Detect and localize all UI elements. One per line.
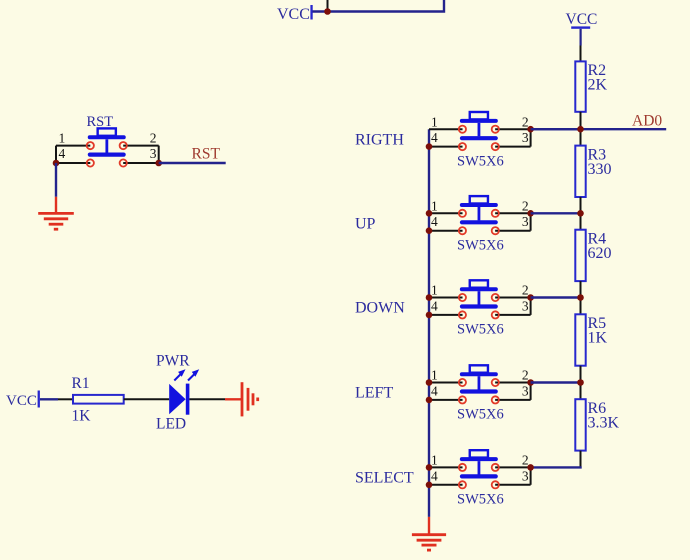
wire rail to pin 4 (DOWN) (429, 314, 463, 316)
wire joining pins 2,3 (UP) (530, 213, 532, 230)
svg-text:LEFT: LEFT (355, 385, 393, 402)
junction pins2-3 to net (RIGTH) (527, 126, 534, 133)
resistor R2 (575, 61, 585, 111)
junction on VCC wire (324, 8, 331, 15)
wire pin 2 to bar (DOWN) (495, 297, 530, 299)
svg-text:2K: 2K (588, 76, 608, 93)
pin of LED / wire to ground (189, 398, 225, 400)
svg-text:1: 1 (431, 453, 438, 468)
pin circles of RST (87, 142, 127, 167)
junction rail/pin4 (LEFT) (426, 397, 433, 404)
svg-text:1K: 1K (72, 407, 92, 424)
svg-text:SW5X6: SW5X6 (457, 153, 504, 169)
ground (RST button) (38, 197, 74, 229)
svg-text:3: 3 (522, 383, 529, 398)
svg-text:4: 4 (431, 383, 438, 398)
wire pin 3 to bar (UP) (495, 230, 530, 232)
svg-text:1: 1 (431, 283, 438, 298)
junction rail/pin1 (DOWN) (426, 294, 433, 301)
svg-text:3: 3 (522, 214, 529, 229)
junction pins2-3 to net (UP) (527, 210, 534, 217)
junction rail/pin1 (UP) (426, 210, 433, 217)
pin 2 of R2 (580, 112, 582, 129)
svg-text:330: 330 (588, 161, 612, 178)
wire rail to pin 1 (DOWN) (429, 297, 463, 299)
wire down to ground (55, 163, 57, 197)
wire joining pins 2,3 (DOWN) (530, 298, 532, 315)
svg-text:1: 1 (431, 114, 438, 129)
junction on resistor chain (UP) (577, 210, 584, 217)
svg-text:1: 1 (431, 368, 438, 383)
push button SW5X6 UP (symbol) (460, 196, 498, 224)
push button SW5X6 SELECT (symbol) (460, 450, 498, 478)
pin 2 of R5 (580, 366, 582, 383)
svg-text:VCC: VCC (277, 6, 310, 23)
wire rail to pin 4 (SELECT) (429, 484, 463, 486)
push button SW5X6 RIGTH (symbol) (460, 112, 498, 140)
svg-text:AD0: AD0 (632, 113, 662, 130)
svg-text:SW5X6: SW5X6 (457, 492, 504, 508)
wire joining pins 2,3 (SELECT) (530, 467, 532, 484)
pin 2 of R4 (580, 281, 582, 297)
wire AD0 net (531, 128, 667, 130)
wire rail to pin 4 (LEFT) (429, 399, 463, 401)
junction rail/pin4 (UP) (426, 227, 433, 234)
svg-text:2: 2 (522, 114, 529, 129)
wire pin 3 to bar (DOWN) (495, 314, 530, 316)
wire to resistor chain (LEFT) (531, 381, 581, 383)
svg-text:UP: UP (355, 215, 376, 232)
junction pin4 to ground (53, 160, 60, 167)
wire from pin 3 (123, 162, 159, 164)
wire VCC to top edge (313, 0, 445, 12)
svg-text:PWR: PWR (156, 353, 190, 370)
svg-text:SELECT: SELECT (355, 470, 414, 487)
wire pin 3 to bar (LEFT) (495, 399, 530, 401)
svg-text:4: 4 (431, 214, 438, 229)
svg-text:3: 3 (522, 298, 529, 313)
svg-text:VCC: VCC (566, 11, 598, 28)
junction rail/pin1 (LEFT) (426, 379, 433, 386)
wire joining pins 2,3 (LEFT) (530, 383, 532, 400)
svg-text:SW5X6: SW5X6 (457, 407, 504, 423)
pin 1 of R6 (580, 383, 582, 400)
pin stub from cropped part above (327, 0, 329, 11)
svg-text:1: 1 (431, 198, 438, 213)
junction rail/pin1 (SELECT) (426, 464, 433, 471)
wire RST net (159, 162, 226, 164)
wire VCC to R1 (40, 398, 58, 400)
svg-text:3: 3 (522, 130, 529, 145)
wire to resistor chain (UP) (531, 212, 581, 214)
svg-text:DOWN: DOWN (355, 300, 405, 317)
wire pin 3 to bar (SELECT) (495, 484, 530, 486)
pin 2 of R3 (580, 197, 582, 213)
push button SW5X6 LEFT (symbol) (460, 365, 498, 393)
resistor R4 (575, 230, 585, 281)
svg-text:2: 2 (522, 368, 529, 383)
pin 1 of R1 (58, 398, 73, 400)
junction rail/pin4 (RIGTH) (426, 143, 433, 150)
wire pin 3 to bar (RIGTH) (495, 146, 530, 148)
junction pins2-3 to net (DOWN) (527, 294, 534, 301)
pin 1 of R2 (580, 46, 582, 62)
wire joining pins 2,3 (RIGTH) (530, 129, 532, 146)
wire rail to pin 1 (LEFT) (429, 382, 463, 384)
svg-text:VCC: VCC (6, 393, 37, 409)
svg-text:LED: LED (156, 415, 186, 432)
pin circles of SW5X6 DOWN (459, 294, 499, 319)
pin 1 of R4 (580, 213, 582, 229)
LED D1 symbol (169, 384, 189, 415)
wire rail to pin 1 (SELECT) (429, 466, 463, 468)
svg-text:2: 2 (522, 283, 529, 298)
wire rail to pin 4 (RIGTH) (429, 146, 463, 148)
svg-text:RIGTH: RIGTH (355, 131, 404, 148)
pin 2 of R6 (580, 451, 582, 468)
pin circles of SW5X6 RIGTH (459, 126, 499, 151)
junction pins2-3 to net (SELECT) (527, 464, 534, 471)
pin 2 of R1 / wire to LED (124, 398, 170, 400)
svg-text:R1: R1 (72, 375, 90, 392)
left rail wire (common button column) (428, 129, 430, 517)
svg-text:2: 2 (522, 198, 529, 213)
push button RST (symbol) (88, 128, 126, 156)
wire SELECT row to resistor chain (531, 466, 582, 468)
pin 1 of R5 (580, 298, 582, 315)
junction pin3 to RST net (155, 160, 162, 167)
resistor R3 (575, 146, 585, 197)
wire pin 2 to bar (LEFT) (495, 382, 530, 384)
push button SW5X6 DOWN (symbol) (460, 280, 498, 308)
wire rail to pin 4 (UP) (429, 230, 463, 232)
pin circles of SW5X6 SELECT (459, 464, 499, 489)
pin circles of SW5X6 UP (459, 210, 499, 235)
svg-text:4: 4 (431, 468, 438, 483)
svg-text:SW5X6: SW5X6 (457, 237, 504, 253)
wire from pin 2 (123, 145, 159, 147)
power ground (sideways) (225, 382, 258, 416)
wire pin 2 to bar (SELECT) (495, 466, 530, 468)
wire joining pins 2 and 3 (158, 146, 160, 163)
wire to pin 1 (56, 145, 90, 147)
junction on resistor chain (DOWN) (577, 294, 584, 301)
svg-text:1: 1 (59, 130, 66, 145)
junction on resistor chain (RIGTH) (577, 126, 584, 133)
svg-text:SW5X6: SW5X6 (457, 322, 504, 338)
svg-text:4: 4 (431, 298, 438, 313)
svg-text:3: 3 (522, 468, 529, 483)
svg-text:3.3K: 3.3K (588, 415, 620, 432)
ground (ladder) (412, 517, 446, 550)
pin 1 of R3 (580, 129, 582, 145)
wire to pin 4 (56, 162, 90, 164)
resistor R6 (575, 399, 585, 450)
svg-text:1K: 1K (588, 330, 608, 347)
svg-text:RST: RST (192, 146, 221, 163)
resistor R5 (575, 314, 585, 365)
svg-text:2: 2 (150, 130, 157, 145)
svg-text:4: 4 (59, 146, 66, 161)
resistor R1 (73, 395, 124, 404)
wire rail to pin 1 (RIGTH) (429, 128, 463, 130)
wire VCC to R2 (579, 29, 581, 46)
wire to resistor chain (RIGTH) (531, 128, 581, 130)
wire pin 2 to bar (UP) (495, 212, 530, 214)
svg-text:2: 2 (522, 453, 529, 468)
wire to resistor chain (DOWN) (531, 296, 581, 298)
wire joining pins 1 and 4 (55, 146, 57, 163)
junction rail/pin4 (DOWN) (426, 312, 433, 319)
svg-text:620: 620 (588, 245, 612, 262)
svg-text:3: 3 (150, 146, 157, 161)
svg-text:4: 4 (431, 130, 438, 145)
wire pin 2 to bar (RIGTH) (495, 128, 530, 130)
LED arrows (174, 369, 199, 380)
pin circles of SW5X6 LEFT (459, 379, 499, 404)
junction rail/pin4 (SELECT) (426, 482, 433, 489)
junction on resistor chain (LEFT) (577, 379, 584, 386)
junction pins2-3 to net (LEFT) (527, 379, 534, 386)
wire rail to pin 1 (UP) (429, 212, 463, 214)
